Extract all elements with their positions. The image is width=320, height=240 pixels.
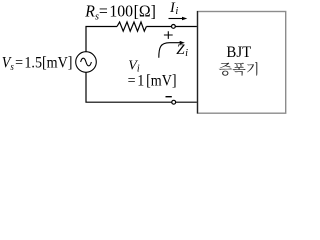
arrow current Ii xyxy=(169,18,184,20)
svg-text:Ii: Ii xyxy=(169,0,178,17)
svg-text:Vs=1.5[mV]: Vs=1.5[mV] xyxy=(2,55,73,73)
svg-text:=1[mV]: =1[mV] xyxy=(128,73,177,90)
node input terminal bottom xyxy=(172,100,176,104)
wire bottom terminal to BJT box xyxy=(176,101,198,103)
arrow impedance Zi xyxy=(159,43,181,58)
wire input terminal to BJT box xyxy=(175,26,198,28)
wire top-left branch from source to resistor xyxy=(86,27,117,52)
svg-text:Rs=100[Ω]: Rs=100[Ω] xyxy=(84,1,156,22)
voltage source VS symbol xyxy=(76,52,97,73)
resistor RS xyxy=(117,22,146,31)
wire source bottom branch xyxy=(86,72,172,102)
wire resistor to input terminal xyxy=(146,26,171,28)
BJT amplifier block xyxy=(198,12,286,114)
node input terminal top xyxy=(172,25,176,29)
plus polarity mark xyxy=(164,31,173,39)
svg-text:Zi: Zi xyxy=(176,42,188,59)
minus polarity mark xyxy=(166,96,172,98)
svg-text:BJT: BJT xyxy=(226,44,251,62)
BJT block left edge (darker) xyxy=(197,11,199,113)
label amplifier (Korean) xyxy=(219,62,257,76)
